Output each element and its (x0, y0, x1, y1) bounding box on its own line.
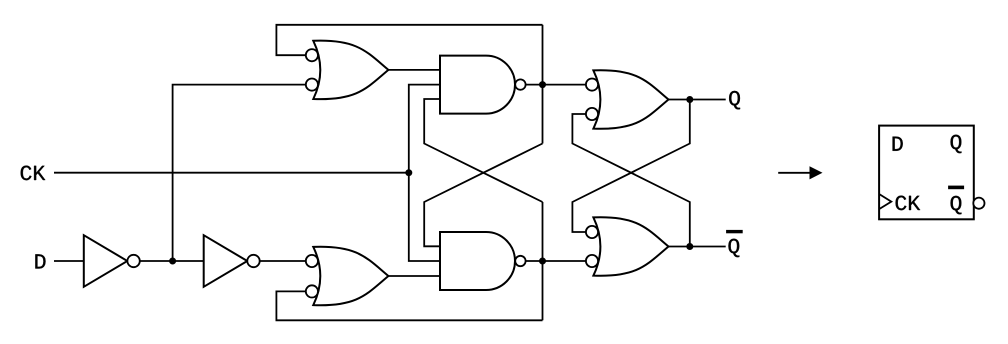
OR gate G1 (negative-input OR, top left) (313, 41, 388, 100)
label Qbar (728, 239, 739, 257)
wire bottom feedback loop (276, 291, 542, 320)
label box Q (951, 135, 962, 153)
NAND gate N2 (bottom) (440, 232, 515, 290)
wire rail top (542, 25, 544, 144)
wire Q output (669, 99, 726, 101)
wire N2 out to G4 (526, 260, 586, 262)
bubble G1 input 1 (306, 49, 318, 61)
wire G1 output to NAND1 (388, 69, 440, 71)
overline box Qbar (948, 186, 964, 190)
bubble G3 input 2 (586, 108, 598, 120)
NAND gate N1 (top) (440, 56, 515, 114)
wire Qbar output (669, 246, 726, 248)
OR gate G2 (negative-input OR, bottom left) (313, 247, 388, 306)
wire cross-couple NAND2 out to NAND1 input (424, 99, 542, 202)
node Q junction dot (686, 96, 693, 103)
label Q (729, 91, 740, 109)
arrow (778, 172, 812, 174)
wire output cross Q to G4 input 1 (572, 100, 689, 233)
label box CK (896, 196, 921, 211)
node Qbar junction dot (686, 243, 693, 250)
wire n1 riser to OR1 input 2 (173, 85, 306, 261)
wire CK riser to NAND inputs (409, 85, 440, 261)
bubble G2 input 1 (306, 255, 318, 267)
wire N1 out to G3 (526, 84, 586, 86)
bubble G4 input 1 (586, 226, 598, 238)
OR gate G3 (negative-input OR, output Q) (593, 70, 668, 129)
wire top feedback loop (276, 25, 542, 55)
wire G2 output to NAND2 (388, 275, 440, 277)
bubble G4 input 2 (586, 255, 598, 267)
bubble box Qbar output (973, 198, 984, 209)
wire output cross Qbar to G3 input 2 (572, 114, 689, 247)
wire D input (54, 260, 84, 262)
node N1 output junction dot (539, 81, 546, 88)
wire rail bottom (542, 202, 544, 320)
label CK (21, 166, 46, 181)
wire cross-couple NAND1 out to NAND2 input (424, 144, 542, 247)
inverter U1 (84, 235, 128, 287)
wire CK input (54, 172, 409, 174)
bubble G1 input 2 (306, 79, 318, 91)
wire U2 out to OR2 input 1 (260, 260, 306, 262)
OR gate G4 (negative-input OR, output Qbar) (593, 217, 668, 276)
label D (35, 254, 45, 268)
label box Qbar (951, 196, 962, 214)
node n1 junction dot (169, 258, 176, 265)
DFF box symbol (879, 126, 974, 220)
wire U1 out to U2 (140, 260, 204, 262)
bubble G3 input 1 (586, 79, 598, 91)
bubble N1 output (515, 79, 525, 89)
node CK junction dot (405, 169, 412, 176)
bubble U1 output (127, 255, 139, 267)
node N2 output junction dot (539, 258, 546, 265)
bubble G2 input 2 (306, 285, 318, 297)
label box D (893, 137, 903, 151)
overline Qbar (726, 230, 743, 233)
clock triangle (879, 194, 891, 209)
bubble N2 output (515, 256, 525, 266)
bubble U2 output (247, 255, 259, 267)
inverter U2 (204, 235, 248, 287)
